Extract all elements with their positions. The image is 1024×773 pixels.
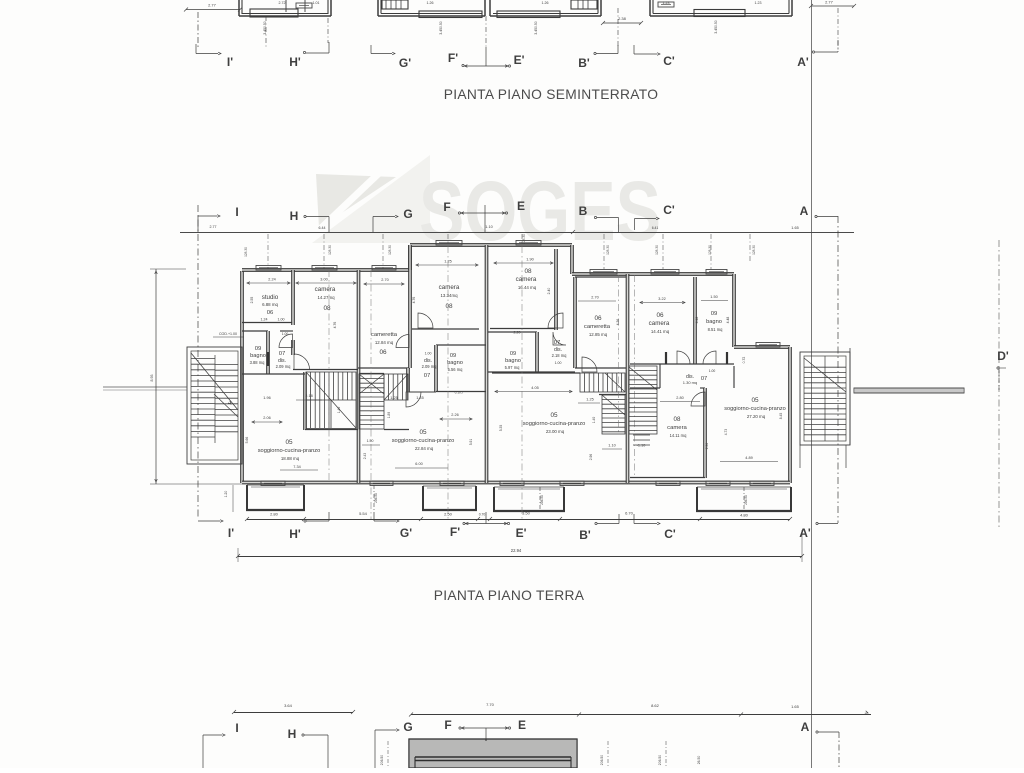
unit3 stairs xyxy=(580,373,625,434)
svg-text:1.23: 1.23 xyxy=(663,1,670,5)
svg-text:E': E' xyxy=(516,526,527,540)
svg-text:22.84 mq: 22.84 mq xyxy=(415,446,434,451)
bottom sill 1 xyxy=(370,481,393,486)
svg-text:soggiorno-cucina-pranzo: soggiorno-cucina-pranzo xyxy=(523,421,586,427)
window centerline 8 xyxy=(749,234,751,262)
centerline A mid xyxy=(837,216,839,523)
svg-text:H: H xyxy=(290,209,299,223)
svg-text:3.22: 3.22 xyxy=(658,297,665,301)
svg-text:1.26: 1.26 xyxy=(427,1,434,5)
svg-text:128.30: 128.30 xyxy=(388,245,392,255)
markers F E bottom2 xyxy=(444,718,526,741)
svg-text:3.00: 3.00 xyxy=(320,278,327,282)
svg-text:1.65: 1.65 xyxy=(791,226,798,230)
svg-text:5.91: 5.91 xyxy=(469,439,473,446)
svg-text:A: A xyxy=(801,720,810,734)
svg-text:05: 05 xyxy=(550,412,558,419)
section marker G xyxy=(373,207,413,232)
svg-text:5.54: 5.54 xyxy=(359,511,368,516)
wall stub bottom left xyxy=(408,739,410,768)
svg-text:128.30: 128.30 xyxy=(708,245,712,255)
svg-text:bagno: bagno xyxy=(505,358,521,364)
svg-text:5.35: 5.35 xyxy=(499,425,503,432)
svg-text:1.00: 1.00 xyxy=(282,332,289,336)
svg-text:05: 05 xyxy=(751,397,759,404)
svg-text:3.50: 3.50 xyxy=(522,511,531,516)
svg-text:4.80: 4.80 xyxy=(740,513,749,518)
svg-text:soggiorno-cucina-pranzo: soggiorno-cucina-pranzo xyxy=(258,448,321,454)
svg-text:206.50: 206.50 xyxy=(374,493,378,503)
svg-text:5.56 mq: 5.56 mq xyxy=(448,367,464,372)
svg-text:8.51 mq: 8.51 mq xyxy=(708,327,724,332)
svg-text:2.55: 2.55 xyxy=(250,297,254,304)
rot window dim 6 xyxy=(708,245,712,255)
rot dim bottom d xyxy=(697,756,701,765)
svg-text:2.36: 2.36 xyxy=(705,443,709,450)
svg-text:A': A' xyxy=(799,526,811,540)
balcony centerline u2 xyxy=(374,485,378,512)
svg-text:studio: studio xyxy=(262,294,279,301)
rot dim a xyxy=(263,21,267,34)
svg-text:22.94: 22.94 xyxy=(511,548,522,553)
svg-text:0.70: 0.70 xyxy=(479,513,486,517)
unit2 dim texts xyxy=(362,260,478,469)
svg-text:I: I xyxy=(235,205,238,219)
svg-text:1.00: 1.00 xyxy=(425,352,432,356)
svg-text:07: 07 xyxy=(279,351,286,357)
wall stub bottom right xyxy=(576,739,578,768)
svg-text:2.80: 2.80 xyxy=(270,512,279,517)
svg-text:128.30: 128.30 xyxy=(328,245,332,255)
window centerline 1 xyxy=(323,234,325,269)
centerline frag1 xyxy=(265,16,267,47)
svg-text:G': G' xyxy=(400,526,412,540)
section marker B xyxy=(579,204,619,232)
svg-text:1.96: 1.96 xyxy=(263,396,270,400)
window sill u4a xyxy=(651,270,679,275)
window sill u4b xyxy=(706,270,727,275)
unit2 stairs xyxy=(359,374,408,429)
svg-text:bagno: bagno xyxy=(250,353,266,359)
svg-text:camera: camera xyxy=(667,425,687,431)
section marker I xyxy=(198,205,239,232)
svg-text:6.00: 6.00 xyxy=(415,462,422,466)
rot dim 1.20 left xyxy=(224,485,233,512)
svg-text:09: 09 xyxy=(255,346,262,352)
svg-text:2.72: 2.72 xyxy=(279,1,286,5)
svg-text:B': B' xyxy=(579,528,591,542)
svg-text:1.24: 1.24 xyxy=(261,318,268,322)
svg-text:16.44 mq: 16.44 mq xyxy=(518,285,537,290)
svg-text:2.24: 2.24 xyxy=(268,278,275,282)
svg-text:08: 08 xyxy=(674,416,681,423)
hatched balcony bottom xyxy=(409,739,577,768)
section marker A' xyxy=(797,40,838,69)
svg-text:2.38: 2.38 xyxy=(618,16,627,21)
svg-text:6.44: 6.44 xyxy=(319,226,326,230)
section marker I' xyxy=(196,44,233,69)
basement fragment 4 walls xyxy=(650,0,792,17)
dimension row under plan xyxy=(245,511,792,522)
svg-text:I': I' xyxy=(228,526,234,540)
centerline H basement xyxy=(327,18,329,43)
svg-text:4.48: 4.48 xyxy=(726,317,730,324)
svg-text:23.00 mq: 23.00 mq xyxy=(546,429,565,434)
svg-text:206.50: 206.50 xyxy=(600,755,604,765)
svg-text:128.30: 128.30 xyxy=(752,245,756,255)
window centerline 2 xyxy=(382,234,384,269)
window centerline 7 xyxy=(710,234,712,269)
window centerline 5 xyxy=(603,234,605,269)
svg-text:cameretta: cameretta xyxy=(371,332,398,338)
svg-text:F: F xyxy=(443,200,450,214)
bottom sill 7 xyxy=(750,481,774,486)
svg-text:E: E xyxy=(518,718,526,732)
unit1 stairs xyxy=(306,372,356,429)
svg-text:206.50: 206.50 xyxy=(658,755,662,765)
svg-text:camera: camera xyxy=(516,276,537,283)
svg-text:26.50: 26.50 xyxy=(697,756,701,765)
svg-text:06: 06 xyxy=(379,349,387,356)
svg-text:2.50: 2.50 xyxy=(444,512,453,517)
marker H' bottom xyxy=(289,512,329,541)
rot dim bottom a xyxy=(380,741,388,768)
watermark logo xyxy=(298,155,661,258)
svg-text:7.34: 7.34 xyxy=(293,465,300,469)
unit4 step lines xyxy=(633,435,650,445)
dim 2.77 top-left xyxy=(184,3,242,12)
svg-text:F': F' xyxy=(448,51,458,65)
unit3 room labels xyxy=(505,268,611,434)
svg-text:27.20 mq: 27.20 mq xyxy=(747,414,766,419)
centerline A basement xyxy=(837,8,839,52)
svg-text:1.50: 1.50 xyxy=(367,439,374,443)
svg-text:2.40: 2.40 xyxy=(547,288,551,295)
svg-text:6.41: 6.41 xyxy=(652,226,659,230)
rot window dim 2 xyxy=(388,245,392,255)
svg-text:206.50: 206.50 xyxy=(380,755,384,765)
svg-text:1.00: 1.00 xyxy=(555,361,562,365)
svg-text:06: 06 xyxy=(594,315,602,322)
svg-text:18.88 mq: 18.88 mq xyxy=(281,456,300,461)
svg-text:07: 07 xyxy=(701,376,707,382)
section line H through plan xyxy=(328,270,330,482)
marker B' bottom xyxy=(579,514,619,542)
window centerline 0 xyxy=(267,234,269,269)
section marker H' xyxy=(289,42,329,69)
external stair left xyxy=(187,347,242,464)
svg-text:A': A' xyxy=(797,55,809,69)
svg-text:1.40: 1.40 xyxy=(337,407,341,414)
svg-text:1.25: 1.25 xyxy=(390,396,397,400)
right stair side walls xyxy=(800,348,850,468)
svg-text:4.73: 4.73 xyxy=(724,429,728,436)
unit1 dim texts xyxy=(245,278,356,471)
svg-text:14.27mq: 14.27mq xyxy=(317,295,335,300)
window centerline 6 xyxy=(662,234,664,269)
svg-text:cameretta: cameretta xyxy=(584,324,611,330)
balcony unit4 xyxy=(696,487,792,511)
svg-text:7.70: 7.70 xyxy=(486,702,495,707)
svg-text:2.09 mq: 2.09 mq xyxy=(276,364,292,369)
svg-text:13.34mq: 13.34mq xyxy=(440,293,458,298)
window centerline 4 xyxy=(521,234,523,245)
dim 3.64 bottom xyxy=(232,703,355,714)
section markers F E xyxy=(443,199,525,232)
window sill u2c xyxy=(436,241,462,246)
svg-text:4.05: 4.05 xyxy=(531,386,538,390)
unit4 door arcs xyxy=(666,351,727,406)
basement fragment 1 walls xyxy=(239,0,331,17)
svg-text:4.48: 4.48 xyxy=(695,317,699,324)
section line D left xyxy=(103,387,187,390)
svg-text:08: 08 xyxy=(524,268,532,275)
svg-text:D': D' xyxy=(997,349,1009,363)
rot window dim 0 xyxy=(244,247,248,257)
svg-text:C': C' xyxy=(663,54,675,68)
svg-text:06: 06 xyxy=(656,312,664,319)
marker G' bottom xyxy=(374,512,412,540)
unit2 door arcs xyxy=(396,313,436,407)
centerline right edge xyxy=(998,240,1000,530)
svg-text:H': H' xyxy=(289,55,301,69)
svg-text:G: G xyxy=(403,207,412,221)
bottom sill 5 xyxy=(656,481,680,486)
balcony unit3 xyxy=(493,487,565,511)
svg-text:C': C' xyxy=(664,527,676,541)
svg-text:09: 09 xyxy=(450,353,456,359)
centerline I xyxy=(197,205,199,519)
dim 1.65 right xyxy=(791,226,798,230)
dim 7.70 8.62 1.65 bottom xyxy=(409,702,871,717)
svg-text:128.30: 128.30 xyxy=(522,234,526,244)
svg-text:4.76: 4.76 xyxy=(412,297,416,304)
svg-text:1.65: 1.65 xyxy=(791,704,800,709)
svg-text:C': C' xyxy=(663,203,675,217)
svg-text:6.70: 6.70 xyxy=(625,511,634,516)
section line F through plan xyxy=(447,246,449,520)
svg-text:8.45: 8.45 xyxy=(779,413,783,420)
marker A bottom2 xyxy=(801,720,839,768)
section marker A xyxy=(800,204,838,218)
section line E through plan xyxy=(521,246,523,520)
balcony unit2 xyxy=(422,486,477,510)
svg-text:camera: camera xyxy=(649,320,670,327)
rot dim d xyxy=(714,20,718,33)
window sill u1a xyxy=(256,266,281,271)
svg-text:camera: camera xyxy=(439,284,460,291)
window centerline 3 xyxy=(447,234,449,245)
bottom sill 6 xyxy=(706,481,730,486)
rot dim b xyxy=(439,21,443,34)
svg-text:2.18: 2.18 xyxy=(305,394,312,398)
svg-text:1.50: 1.50 xyxy=(710,295,717,299)
party wall unit3-4 xyxy=(626,274,629,483)
svg-text:1.90: 1.90 xyxy=(526,258,533,262)
svg-text:8.93: 8.93 xyxy=(150,375,154,382)
svg-text:4.89: 4.89 xyxy=(745,456,752,460)
bottom sill 2 xyxy=(440,481,464,486)
svg-text:H: H xyxy=(288,727,297,741)
unit4 interior walls xyxy=(630,277,734,478)
unit4 dim texts xyxy=(637,295,783,462)
dim 2.77 top-right xyxy=(809,0,856,8)
bottom sill 0 xyxy=(261,481,285,486)
svg-text:3.88 mq: 3.88 mq xyxy=(250,360,266,365)
svg-text:1.10: 1.10 xyxy=(608,444,615,448)
rot window dim 7 xyxy=(752,245,756,255)
svg-text:E: E xyxy=(517,199,525,213)
window sill u2a xyxy=(372,266,396,271)
section line B through plan xyxy=(618,275,620,434)
marker C' bottom xyxy=(634,514,676,541)
svg-text:5.97 mq: 5.97 mq xyxy=(505,365,521,370)
svg-text:E': E' xyxy=(514,53,525,67)
svg-text:08: 08 xyxy=(323,305,331,312)
unit2 interior walls xyxy=(358,245,486,430)
svg-text:2.80: 2.80 xyxy=(676,396,683,400)
centerline FE basement xyxy=(485,16,487,47)
svg-text:09: 09 xyxy=(711,311,718,317)
party wall unit2-3 xyxy=(485,245,488,483)
svg-text:09: 09 xyxy=(510,351,516,357)
svg-text:1.25: 1.25 xyxy=(586,398,593,402)
unit3 door arcs xyxy=(548,313,597,372)
dim 2.38 top-mid xyxy=(601,16,643,25)
balcony centerline u3 xyxy=(540,487,544,512)
reference line y232 xyxy=(180,230,854,234)
rot dim bottom c xyxy=(658,741,666,768)
svg-text:1.30 mq: 1.30 mq xyxy=(683,380,697,385)
svg-text:H': H' xyxy=(289,527,301,541)
svg-text:07: 07 xyxy=(424,373,431,379)
svg-text:2.09 mq: 2.09 mq xyxy=(422,364,438,369)
svg-text:2.77: 2.77 xyxy=(825,0,834,5)
svg-text:2.26: 2.26 xyxy=(451,413,458,417)
svg-text:1.40: 1.40 xyxy=(592,417,596,424)
svg-text:05: 05 xyxy=(285,439,293,446)
section line C' through plan xyxy=(634,275,636,478)
unit3 dim texts xyxy=(494,258,622,461)
svg-text:3.450.50: 3.450.50 xyxy=(263,21,267,34)
svg-text:2.70: 2.70 xyxy=(381,278,388,282)
svg-text:1.00: 1.00 xyxy=(278,318,285,322)
svg-text:6.88 mq: 6.88 mq xyxy=(262,302,278,307)
svg-text:12.85 mq: 12.85 mq xyxy=(589,332,608,337)
svg-text:0.10,7: 0.10,7 xyxy=(455,391,464,395)
svg-text:G': G' xyxy=(399,56,411,70)
svg-text:1.45: 1.45 xyxy=(416,396,423,400)
svg-text:0.72: 0.72 xyxy=(742,357,746,364)
svg-text:COD.+1.00: COD.+1.00 xyxy=(219,332,237,336)
svg-text:F: F xyxy=(444,718,451,732)
title PIANTA PIANO TERRA xyxy=(434,588,585,603)
svg-text:206.50: 206.50 xyxy=(540,495,544,505)
outer walls envelope xyxy=(241,244,792,484)
svg-text:I': I' xyxy=(227,55,233,69)
rot dim bottom b xyxy=(600,741,608,768)
svg-text:3.450.50: 3.450.50 xyxy=(439,21,443,34)
centerline I basement xyxy=(197,12,199,47)
section marker D' xyxy=(997,349,1009,390)
svg-text:2.77: 2.77 xyxy=(210,225,217,229)
svg-text:5.66: 5.66 xyxy=(245,437,249,444)
section marker C' xyxy=(634,45,675,68)
svg-text:128.30: 128.30 xyxy=(606,245,610,255)
svg-text:camera: camera xyxy=(315,286,336,293)
basement fragment 3 walls xyxy=(490,0,601,18)
bottom sill 3 xyxy=(500,481,524,486)
svg-text:3.450.50: 3.450.50 xyxy=(534,21,538,34)
balcony unit1 xyxy=(246,485,305,510)
svg-text:B: B xyxy=(579,204,588,218)
svg-text:B': B' xyxy=(578,56,590,70)
unit4 stair flight xyxy=(629,366,657,434)
section line G through plan xyxy=(370,270,372,520)
unit2 room labels xyxy=(371,284,463,451)
text COD+1.00 xyxy=(213,332,244,337)
svg-text:4.76: 4.76 xyxy=(333,322,337,329)
party wall unit1-2 xyxy=(357,270,360,483)
svg-text:1.23: 1.23 xyxy=(755,1,762,5)
section marker B' xyxy=(578,45,618,70)
svg-text:07: 07 xyxy=(554,340,561,346)
svg-text:bagno: bagno xyxy=(447,360,463,366)
svg-text:soggiorno-cucina-pranzo: soggiorno-cucina-pranzo xyxy=(392,438,455,444)
balcony centerline u4 xyxy=(744,487,748,512)
marker G bottom2 xyxy=(375,720,413,768)
svg-text:2.43: 2.43 xyxy=(363,453,367,460)
svg-text:12.84 mq: 12.84 mq xyxy=(375,340,394,345)
svg-text:I: I xyxy=(235,721,238,735)
svg-text:14.11 mq: 14.11 mq xyxy=(670,433,687,438)
svg-text:1.01: 1.01 xyxy=(313,1,320,5)
external stair right xyxy=(800,352,850,445)
section marker G' xyxy=(371,45,411,70)
section markers F' E' xyxy=(448,47,525,67)
left vertical dim 8.93 xyxy=(150,269,242,484)
svg-text:8.62: 8.62 xyxy=(651,703,660,708)
section marker H xyxy=(290,209,329,232)
svg-text:128.30: 128.30 xyxy=(244,247,248,257)
dim 22.94 xyxy=(236,530,804,562)
svg-text:G: G xyxy=(403,720,412,734)
unit3 interior walls xyxy=(488,249,626,395)
svg-text:05: 05 xyxy=(419,429,427,436)
dim 6.44 under H xyxy=(319,226,326,230)
unit1 room labels xyxy=(250,286,336,461)
svg-text:3.450.50: 3.450.50 xyxy=(714,20,718,33)
svg-text:1.00: 1.00 xyxy=(709,369,716,373)
svg-text:1.89: 1.89 xyxy=(387,412,391,419)
svg-text:128.30: 128.30 xyxy=(655,245,659,255)
rot window dim 1 xyxy=(328,245,332,255)
rot window dim 3 xyxy=(522,234,526,244)
svg-text:2.96: 2.96 xyxy=(589,454,593,461)
window sill u3a xyxy=(590,270,617,275)
unit4 room labels xyxy=(649,311,786,438)
svg-text:2.06: 2.06 xyxy=(263,416,270,420)
marker I' bottom xyxy=(198,520,234,540)
basement fragment 2 walls xyxy=(378,0,485,18)
title PIANTA PIANO SEMINTERRATO xyxy=(444,87,659,102)
window sill u4s xyxy=(756,343,780,348)
svg-text:A: A xyxy=(800,204,809,218)
svg-text:14.41 mq: 14.41 mq xyxy=(651,329,670,334)
marker A' bottom xyxy=(799,522,838,540)
svg-text:F': F' xyxy=(450,525,460,539)
svg-text:-1.10: -1.10 xyxy=(637,444,646,448)
